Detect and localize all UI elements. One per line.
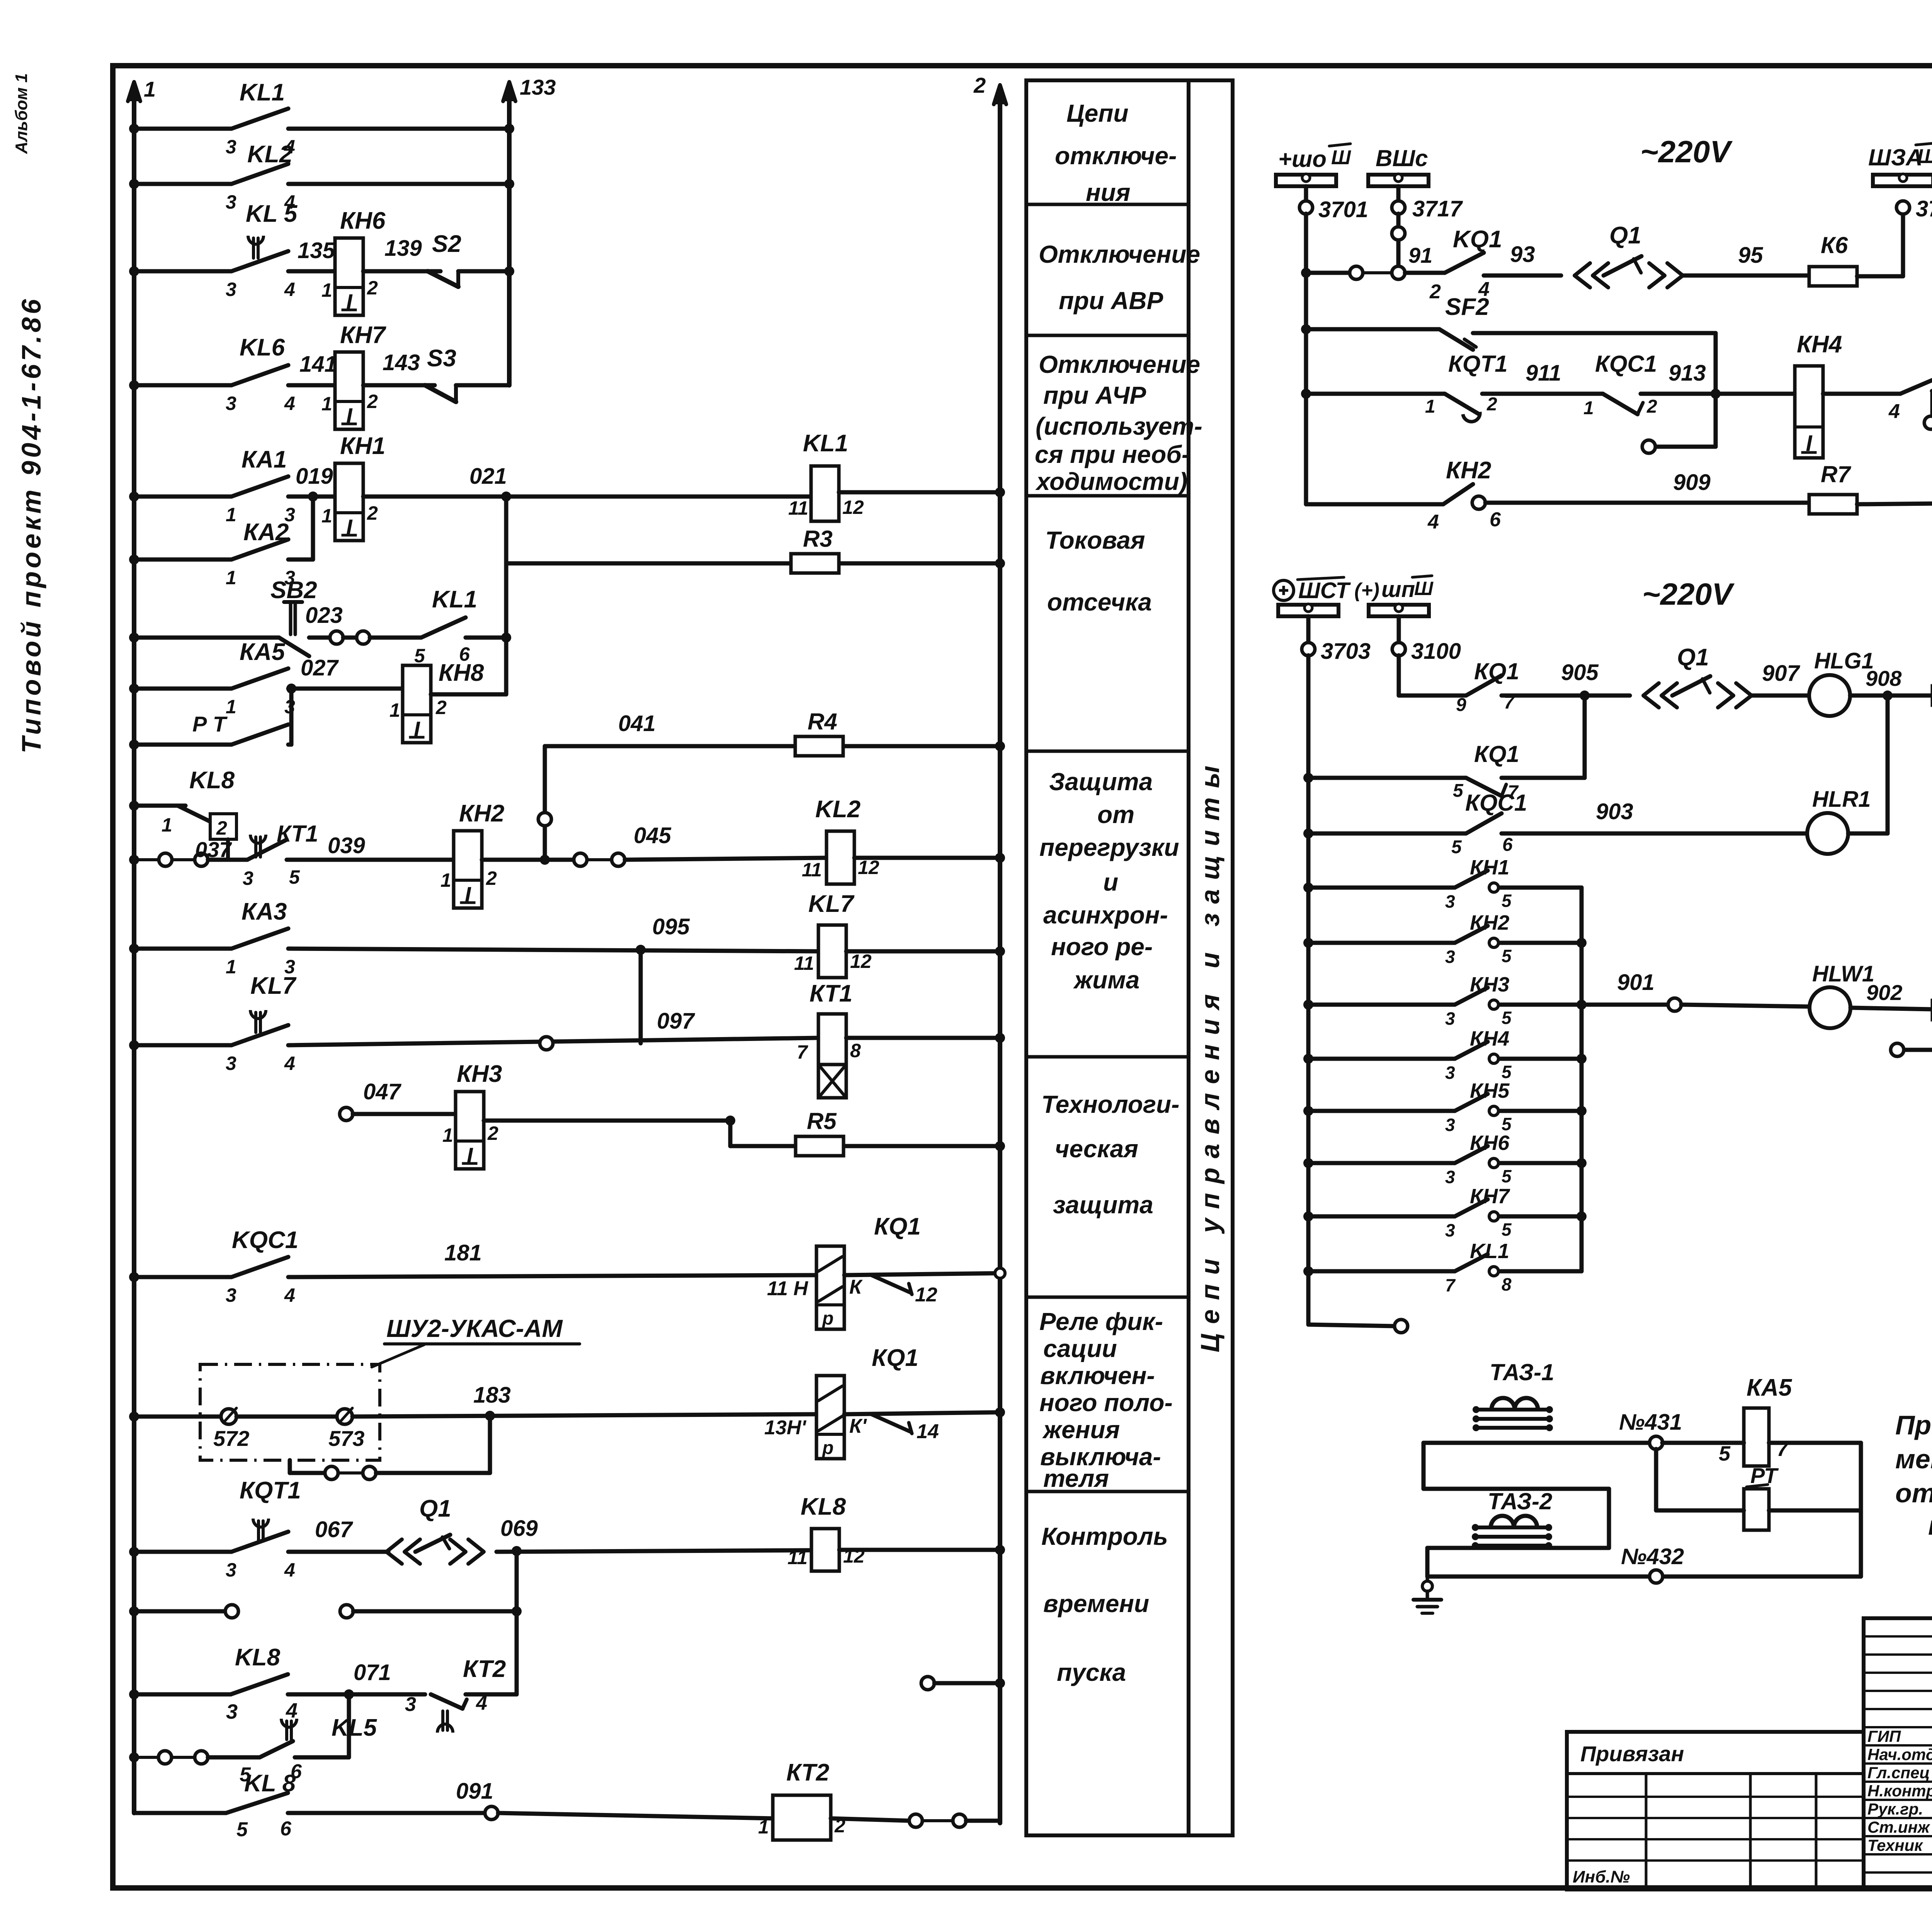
svg-text:Нач.отд: Нач.отд	[1867, 1745, 1932, 1764]
svg-text:ся при необ-: ся при необ-	[1035, 440, 1190, 468]
svg-text:3: 3	[1445, 891, 1455, 912]
wire row909 left	[1306, 502, 1443, 507]
svg-text:3717: 3717	[1412, 196, 1463, 221]
wire node 95	[1683, 274, 1810, 278]
svg-text:12: 12	[842, 497, 864, 518]
svg-text:5: 5	[414, 645, 425, 667]
wire node 097	[288, 1038, 818, 1045]
time coil KT1 7-8	[818, 1014, 846, 1065]
svg-text:041: 041	[618, 711, 656, 736]
svg-text:3: 3	[1445, 1220, 1455, 1240]
contact KQ1 K-12	[844, 1273, 1000, 1275]
terminal N432	[1650, 1570, 1663, 1583]
svg-text:КН2: КН2	[1446, 457, 1491, 484]
wire rung KH7 left	[134, 383, 231, 388]
svg-text:Ш: Ш	[1414, 578, 1434, 599]
wire ТАЗ-1 secondary bottom	[1423, 1487, 1609, 1491]
svg-text:8: 8	[1502, 1274, 1512, 1294]
svg-text:3: 3	[226, 136, 236, 158]
wire rung KL2 left	[134, 182, 231, 186]
svg-text:1: 1	[1583, 398, 1594, 418]
position relay KQ1 11H-K	[816, 1246, 844, 1329]
wire node 091	[288, 1811, 485, 1815]
reference col 4700	[1815, 1774, 1818, 1889]
wire ТАЗ-2 left	[1425, 1548, 1430, 1577]
svg-text:Защита: Защита	[1049, 768, 1153, 796]
svg-text:времени: времени	[1043, 1590, 1149, 1617]
wire rung 037 dashes	[129, 855, 139, 865]
svg-text:KL8: KL8	[189, 767, 235, 794]
wire KH3 right	[484, 1119, 730, 1123]
svg-text:3100: 3100	[1411, 639, 1461, 664]
svg-text:903: 903	[1596, 799, 1633, 824]
svg-text:S2: S2	[432, 231, 461, 257]
svg-text:069: 069	[500, 1516, 538, 1541]
relay contact KA2 1-3	[231, 539, 288, 560]
svg-text:при АВР: при АВР	[1059, 287, 1163, 315]
wire node 181	[288, 1275, 815, 1277]
blinker contact КН5 3-5	[1303, 1106, 1313, 1116]
svg-text:КQС1: КQС1	[1595, 351, 1657, 377]
svg-text:асинхрон-: асинхрон-	[1043, 901, 1168, 929]
svg-text:HLR1: HLR1	[1812, 787, 1871, 812]
wire node 911	[1482, 392, 1603, 396]
svg-text:11: 11	[787, 1547, 808, 1568]
svg-text:KL2: KL2	[247, 141, 293, 168]
svg-text:Q1: Q1	[1609, 222, 1641, 249]
svg-text:КQ1: КQ1	[1474, 658, 1519, 684]
wire KH8 to vertical	[431, 692, 506, 697]
svg-text:902: 902	[1866, 980, 1902, 1005]
stamp row line 4235	[1864, 1635, 1932, 1638]
svg-text:KL2: KL2	[815, 796, 861, 823]
svg-text:перегрузки: перегрузки	[1039, 833, 1179, 861]
svg-text:К: К	[849, 1276, 863, 1298]
breaker aux Q1 chevrons	[386, 1539, 402, 1564]
svg-text:р: р	[821, 1438, 833, 1458]
wire node 021	[363, 495, 811, 499]
svg-text:KL7: KL7	[808, 891, 855, 917]
svg-text:1: 1	[321, 393, 332, 415]
breaker aux contact KQ1 2-4	[1405, 271, 1445, 275]
resistor R7	[1809, 495, 1857, 514]
svg-text:KL5: KL5	[332, 1714, 378, 1741]
wire ТАЗ-1 secondary left	[1422, 1443, 1426, 1489]
blinker contact KL1 7-8	[1303, 1266, 1313, 1276]
relay contact KH2 4-6	[1443, 484, 1473, 504]
wire KT1 coil to rail2	[846, 1036, 1000, 1040]
svg-text:(+): (+)	[1354, 579, 1379, 602]
svg-text:КQТ1: КQТ1	[1448, 351, 1508, 377]
wire ВШс vertical	[1396, 214, 1401, 270]
svg-text:5: 5	[1719, 1442, 1731, 1465]
svg-text:ния: ния	[1086, 179, 1130, 206]
wire node 135	[288, 269, 335, 274]
bus +шо III	[1276, 175, 1336, 186]
relay coil KH6	[335, 238, 363, 315]
svg-text:КН1: КН1	[340, 433, 385, 459]
position contact KQT1 1-2	[1445, 394, 1479, 414]
lamp HLR1	[1807, 813, 1848, 854]
svg-text:5: 5	[236, 1818, 248, 1841]
stamp row line 4470	[1864, 1726, 1932, 1728]
svg-text:11: 11	[802, 859, 822, 881]
svg-text:4: 4	[284, 1284, 295, 1306]
wire node 905	[1502, 694, 1630, 698]
svg-text:901: 901	[1617, 970, 1655, 995]
relay contact KQT1 3-4 latched	[231, 1532, 288, 1552]
svg-text:6: 6	[280, 1818, 292, 1840]
svg-text:1: 1	[226, 504, 236, 526]
wire vertical 041	[543, 746, 547, 860]
switch S3	[425, 385, 456, 402]
svg-text:от: от	[1097, 801, 1134, 828]
stamp row line 4329	[1864, 1672, 1932, 1674]
svg-text:905: 905	[1561, 660, 1599, 685]
reference row 4815	[1567, 1859, 1864, 1862]
wire KL2 coil to rail2	[854, 856, 1000, 860]
svg-text:13Н': 13Н'	[764, 1417, 806, 1439]
wire rung KA5 left	[134, 687, 231, 691]
svg-text:КТ2: КТ2	[463, 1656, 506, 1682]
svg-text:R3: R3	[803, 526, 833, 552]
svg-text:019: 019	[296, 464, 333, 489]
wire ШСТ bottom stub	[1308, 1325, 1395, 1326]
svg-text:№432: №432	[1621, 1544, 1684, 1569]
svg-text:при АЧР: при АЧР	[1043, 381, 1146, 409]
wire vertical 071	[347, 1694, 351, 1757]
svg-text:KQ1: KQ1	[1453, 226, 1502, 253]
svg-text:КТ1: КТ1	[810, 980, 852, 1007]
breaker aux KQ1 5-7	[1303, 773, 1313, 783]
breaker Q1 chevron contact	[1575, 263, 1590, 287]
wire rung KL1 right	[288, 127, 509, 131]
stamp row line 4752	[1864, 1835, 1932, 1837]
relay contact KL7 3-4 latched	[231, 1025, 288, 1045]
wire rung KL7 left	[134, 1043, 231, 1048]
svg-text:071: 071	[354, 1660, 391, 1685]
stamp row line 4564	[1864, 1762, 1932, 1765]
stamp row line 4376	[1864, 1690, 1932, 1692]
svg-text:133: 133	[520, 75, 556, 99]
svg-text:2: 2	[486, 867, 497, 889]
wire node 067	[288, 1550, 388, 1554]
wire blinker bus vertical	[1580, 888, 1584, 1271]
wire 037 to KT1	[208, 858, 247, 862]
wire 023 to KL1	[370, 636, 421, 640]
reference col 4260	[1645, 1774, 1648, 1889]
svg-text:KL1: KL1	[1470, 1240, 1509, 1263]
wire S2 to rail133	[458, 269, 509, 274]
svg-text:HLW1: HLW1	[1812, 961, 1874, 986]
svg-text:039: 039	[328, 833, 365, 858]
svg-text:3: 3	[1445, 1115, 1455, 1135]
svg-text:ходимости): ходимости)	[1035, 468, 1187, 495]
wire rung 183 left	[134, 1415, 221, 1419]
wire node 143	[363, 383, 435, 388]
svg-text:1: 1	[1425, 396, 1435, 417]
svg-text:KL6: KL6	[240, 334, 285, 361]
svg-text:3: 3	[226, 191, 236, 213]
svg-text:ческая: ческая	[1055, 1135, 1138, 1163]
wire vertical 905 branch	[1583, 696, 1587, 778]
blinker contact КН3 3-5	[1303, 1000, 1313, 1010]
relay contact KH4 4-6	[1900, 380, 1932, 394]
wire rung R3	[506, 561, 791, 566]
svg-text:р: р	[821, 1308, 833, 1329]
svg-text:3: 3	[226, 1053, 236, 1074]
wire rung connector pair	[129, 1606, 139, 1616]
table divider y529	[1026, 203, 1189, 206]
svg-text:3: 3	[405, 1693, 416, 1716]
wire +шо vertical	[1304, 214, 1308, 504]
svg-text:Реле фик-: Реле фик-	[1039, 1308, 1163, 1335]
wire rung KL8 3-4 left	[134, 1692, 231, 1697]
blinker contact КН7 3-5	[1303, 1211, 1313, 1221]
wire node 93	[1484, 274, 1561, 278]
svg-text:93: 93	[1510, 242, 1535, 267]
svg-text:135: 135	[298, 238, 335, 263]
wire rung KL2 right	[288, 182, 509, 186]
svg-text:95: 95	[1738, 243, 1763, 268]
wire rung R4	[545, 744, 796, 748]
table divider y1283	[1026, 494, 1189, 498]
relay coil KH7	[335, 352, 363, 429]
svg-text:Контроль: Контроль	[1041, 1522, 1168, 1550]
svg-text:Техник: Техник	[1867, 1836, 1923, 1854]
blinker contact КН4 3-5	[1303, 1054, 1313, 1064]
svg-text:1: 1	[226, 956, 236, 978]
svg-text:R5: R5	[807, 1108, 837, 1134]
svg-text:КА5: КА5	[1747, 1374, 1793, 1401]
wire SF2 branch vertical	[1714, 333, 1718, 447]
wire KH4 to contact	[1823, 392, 1900, 396]
stamp row line 4517	[1864, 1744, 1932, 1747]
svg-text:911: 911	[1526, 361, 1561, 386]
wire node 141	[288, 383, 335, 388]
svg-text:3: 3	[1445, 1167, 1455, 1187]
svg-text:091: 091	[456, 1779, 493, 1804]
wire node 901	[1582, 1003, 1668, 1007]
svg-text:4: 4	[284, 279, 295, 300]
svg-text:КН3: КН3	[457, 1061, 502, 1087]
current transformer ТАЗ-2	[1491, 1516, 1514, 1527]
svg-text:КА3: КА3	[241, 898, 287, 925]
lamp HLG1	[1809, 675, 1850, 716]
svg-text:Инб.№: Инб.№	[1573, 1867, 1630, 1886]
svg-text:ШУ2-УКАС-АМ: ШУ2-УКАС-АМ	[386, 1315, 563, 1342]
svg-text:141: 141	[299, 352, 337, 377]
svg-text:2: 2	[973, 73, 986, 97]
breaker trip SF2	[1301, 324, 1311, 334]
svg-text:1: 1	[321, 505, 332, 527]
cabinet outline ШУ2 dash-dot box	[200, 1364, 380, 1460]
wire РТ row	[1656, 1509, 1744, 1513]
thermal coil РТ	[1744, 1489, 1769, 1530]
relay contact KA3 1-3	[231, 929, 288, 949]
svg-text:отсечка: отсечка	[1047, 588, 1152, 616]
terminal 3717	[1396, 186, 1401, 201]
svg-text:2: 2	[1429, 281, 1441, 303]
svg-text:5: 5	[1502, 1008, 1512, 1028]
relay contact KL8 1-2	[178, 806, 213, 823]
wire KT2 coil right	[831, 1818, 910, 1821]
time contact KT2 3-4 latched	[431, 1694, 463, 1709]
svg-text:Типовой проект 904-1-67.86: Типовой проект 904-1-67.86	[16, 296, 46, 753]
breaker Q1 chevron contact mid	[1643, 683, 1659, 707]
svg-text:КН4: КН4	[1797, 331, 1842, 358]
svg-text:отключе-: отключе-	[1055, 142, 1177, 170]
wire node 913	[1641, 392, 1795, 396]
svg-text:KL8: KL8	[235, 1644, 281, 1671]
relay coil KH1	[335, 463, 363, 541]
svg-text:защита: защита	[1053, 1191, 1153, 1219]
svg-text:4: 4	[1427, 511, 1439, 533]
node 027	[288, 687, 403, 691]
reference col 4530	[1749, 1774, 1752, 1889]
svg-text:ТАЗ-1: ТАЗ-1	[1490, 1359, 1554, 1385]
bus ШЗА III	[1873, 175, 1932, 186]
blinker contact КН1 3-5	[1303, 883, 1313, 893]
svg-text:4: 4	[284, 393, 295, 414]
switch S2	[428, 271, 458, 287]
wire node 139	[363, 269, 440, 274]
breaker aux KQ1 9-7	[1466, 675, 1502, 696]
relay contact KL6 3-4	[231, 365, 288, 385]
svg-text:7: 7	[797, 1041, 808, 1063]
svg-text:3: 3	[226, 279, 236, 300]
svg-text:КQТ1: КQТ1	[240, 1477, 301, 1504]
svg-text:2: 2	[1646, 396, 1657, 417]
relay coil KH2	[454, 831, 482, 908]
wire node 903	[1502, 832, 1807, 836]
reference table header divider	[1567, 1772, 1864, 1775]
relay coil KL2 11-12	[827, 831, 854, 884]
svg-text:3: 3	[226, 1559, 236, 1581]
wire KT2 to vertical	[466, 1692, 517, 1697]
thermal contact PT	[231, 724, 288, 745]
svg-text:№431: №431	[1619, 1410, 1682, 1435]
svg-text:2: 2	[216, 817, 227, 839]
svg-text:139: 139	[384, 236, 422, 261]
svg-text:11 Н: 11 Н	[767, 1277, 808, 1300]
svg-text:909: 909	[1673, 470, 1711, 495]
wire stub 4356	[921, 1677, 934, 1690]
svg-text:ШСТ: ШСТ	[1298, 578, 1351, 603]
relay coil KL8 11-12	[811, 1529, 839, 1571]
svg-text:Цепи: Цепи	[1066, 99, 1128, 127]
wire rung PT	[134, 743, 231, 747]
svg-text:1: 1	[226, 696, 236, 718]
svg-text:ВШс: ВШс	[1376, 145, 1428, 171]
svg-text:1: 1	[162, 814, 172, 836]
wire rung KA2	[134, 558, 231, 562]
resistor R4	[795, 736, 843, 756]
wire rung KH6 left	[134, 269, 231, 274]
svg-text:1: 1	[758, 1816, 769, 1838]
svg-text:КН7: КН7	[1470, 1185, 1510, 1208]
position relay KQ1 13H'-K'	[816, 1376, 844, 1459]
svg-text:Рук.гр.: Рук.гр.	[1867, 1800, 1923, 1818]
svg-text:КН2: КН2	[1470, 911, 1509, 934]
svg-text:5: 5	[289, 866, 300, 888]
svg-text:шп: шп	[1381, 577, 1415, 602]
terminal ф573	[337, 1409, 352, 1424]
svg-text:КН2: КН2	[459, 800, 504, 827]
svg-text:~220V: ~220V	[1640, 134, 1733, 169]
svg-text:Ш: Ш	[1917, 145, 1932, 168]
svg-text:11: 11	[794, 952, 814, 974]
svg-text:К6: К6	[1821, 232, 1848, 258]
terminal ф572	[221, 1409, 236, 1424]
svg-text:1: 1	[144, 77, 156, 101]
wire KL1 5-6 right	[466, 636, 506, 640]
relay coil KH8	[403, 665, 431, 743]
svg-text:мендуется защита: мендуется защита	[1895, 1444, 1932, 1474]
wire HLR1 to 908	[1848, 832, 1888, 836]
wire rung R5	[730, 1144, 796, 1148]
svg-text:12: 12	[915, 1284, 937, 1306]
wire ШСТ vertical	[1306, 655, 1311, 1325]
svg-text:907: 907	[1762, 661, 1801, 686]
svg-text:Ш: Ш	[1331, 146, 1351, 169]
svg-text:теля: теля	[1043, 1464, 1109, 1492]
svg-text:KQC1: KQC1	[232, 1227, 298, 1253]
svg-text:1: 1	[226, 567, 236, 588]
table divider y868	[1026, 334, 1189, 337]
svg-text:097: 097	[657, 1009, 696, 1034]
wire rung KH1 left	[134, 495, 231, 499]
svg-text:3703: 3703	[1321, 639, 1371, 664]
wire rung 047	[340, 1107, 353, 1121]
connector circles 045	[574, 853, 587, 866]
svg-text:КТ2: КТ2	[786, 1759, 829, 1786]
svg-text:Отключение: Отключение	[1039, 240, 1200, 268]
wire vertical 069	[515, 1551, 519, 1694]
reference row 4760	[1567, 1838, 1864, 1840]
wire node 069	[497, 1550, 811, 1552]
svg-text:5: 5	[1502, 946, 1512, 966]
svg-text:3: 3	[1445, 1009, 1455, 1029]
svg-text:К': К'	[849, 1415, 867, 1437]
svg-text:и: и	[1103, 868, 1118, 896]
resistor K6	[1809, 267, 1857, 286]
svg-text:143: 143	[383, 350, 420, 375]
svg-text:5: 5	[1451, 837, 1462, 857]
svg-text:Технологи-: Технологи-	[1041, 1090, 1179, 1118]
svg-text:КН8: КН8	[439, 660, 484, 686]
pushbutton SB2	[279, 638, 309, 656]
svg-text:12: 12	[850, 951, 872, 972]
svg-text:1: 1	[321, 279, 332, 301]
svg-text:КQ1: КQ1	[874, 1213, 921, 1240]
wire KH2 to 045	[482, 858, 574, 862]
svg-text:КТ1: КТ1	[277, 821, 318, 847]
wire SF2 branch end	[1655, 445, 1716, 449]
svg-text:ТАЗ-2: ТАЗ-2	[1488, 1488, 1552, 1514]
svg-text:ШЗА: ШЗА	[1868, 145, 1923, 170]
relay coil KL7 11-12	[818, 925, 846, 978]
svg-text:Ст.инж: Ст.инж	[1867, 1818, 1930, 1836]
wire node 023	[309, 636, 330, 640]
stamp row line 4282	[1864, 1653, 1932, 1656]
wire rung KQC1 left	[134, 1275, 231, 1279]
svg-text:КQ1: КQ1	[872, 1345, 918, 1371]
svg-text:S3: S3	[427, 345, 456, 372]
svg-text:3: 3	[1445, 947, 1455, 967]
svg-text:на землю: на землю	[1928, 1510, 1932, 1541]
relay contact KL8 5-6	[226, 1793, 288, 1813]
